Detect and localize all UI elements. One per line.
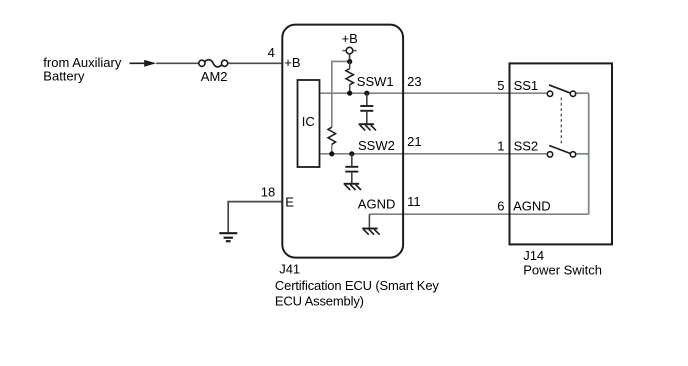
node: junction dot C1/SSW1 [364,91,369,96]
svg-text:6: 6 [497,198,504,213]
svg-text:Certification ECU (Smart Key: Certification ECU (Smart Key [275,278,440,293]
box: Certification ECU J41 outline [282,25,403,258]
ground: chassis ground under C1 [359,124,376,130]
svg-text:Battery: Battery [43,69,85,84]
label: Certification ECU description [275,278,440,308]
fuse AM2 [199,60,228,67]
capacitor C1 (SSW1 filter) [360,93,373,123]
svg-text:SSW1: SSW1 [357,74,394,89]
wire: AGND drop to chassis ground [368,214,370,227]
svg-text:SSW2: SSW2 [358,138,395,153]
svg-text:IC: IC [302,114,315,129]
ground: chassis ground at AGND [362,229,379,235]
svg-text:+B: +B [284,55,300,70]
svg-text:Power Switch: Power Switch [523,263,602,278]
wire: arrow to fuse AM2 [156,62,198,64]
node: from Auxiliary Battery label [43,55,122,84]
arrow: feed from auxiliary battery [130,60,157,67]
resistor R1 (+B to SSW1) [346,62,354,94]
wire: ground bus vertical in power switch [588,93,590,214]
switch SS1 [547,85,575,97]
svg-text:4: 4 [268,45,275,60]
svg-text:5: 5 [497,78,504,93]
node: junction dot R2/SSW2 [329,151,334,156]
power symbol: +B supply terminal [342,47,356,61]
svg-text:AGND: AGND [358,197,396,212]
svg-text:J41: J41 [279,261,300,276]
node: junction dot C2/SSW2 [349,151,354,156]
wire: fuse AM2 to ECU pin 4 [228,62,282,64]
wire: SSW1 line from IC to power switch SS1 contact [321,92,548,94]
svg-text:E: E [285,195,294,210]
wire: SSW2 line from IC to power switch SS2 contact [321,153,548,155]
wire: AGND line from ECU to power switch ground bus [369,213,588,215]
svg-text:18: 18 [261,185,275,200]
wire: SS1 right contact to ground bus [576,92,589,94]
svg-text:1: 1 [497,138,504,153]
svg-text:SS1: SS1 [514,78,539,93]
capacitor C2 (SSW2 filter) [345,154,358,183]
svg-text:J14: J14 [523,248,544,263]
svg-text:21: 21 [407,134,421,149]
node: junction dot R1/SSW1 [347,91,352,96]
wire: mechanical link (dashed) between SS1 and SS2 [560,98,562,147]
wire: R2 bottom to SSW2 [331,144,333,154]
wire: SS2 right contact to ground bus [576,153,589,155]
svg-text:SS2: SS2 [514,138,539,153]
svg-text:11: 11 [407,194,421,209]
wire: E pin to ground [228,202,281,233]
svg-text:from Auxiliary: from Auxiliary [43,55,122,70]
svg-text:AM2: AM2 [201,69,228,84]
node: junction dot at +B branch [347,59,352,64]
svg-text:AGND: AGND [513,198,551,213]
switch SS2 [547,146,575,158]
resistor R2 (IC branch to SSW2) [328,127,336,144]
ground: chassis ground under C2 [344,184,361,190]
svg-text:+B: +B [342,31,358,46]
box: Power Switch J14 outline [510,63,613,244]
IC U1 [298,80,320,167]
svg-text:ECU Assembly): ECU Assembly) [275,293,364,308]
wire: +B branch to left vertical toward R2 [332,61,350,127]
ground: earth ground at E pin [219,233,237,241]
svg-text:23: 23 [407,74,421,89]
